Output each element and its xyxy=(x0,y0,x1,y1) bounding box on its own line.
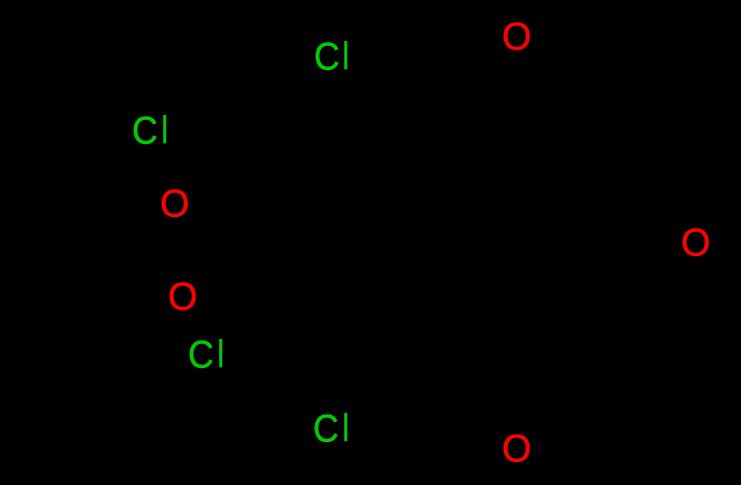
chlorine atom label Cl1 xyxy=(0,0,1,1)
chlorine atom label Cl4 xyxy=(0,0,1,1)
oxygen atom label O4 xyxy=(0,0,1,1)
oxygen atom label O2 xyxy=(0,0,1,1)
oxygen atom label O3 xyxy=(0,0,1,1)
oxygen atom label O1 xyxy=(0,0,1,1)
chlorine atom label Cl3 xyxy=(0,0,1,1)
oxygen atom label O5 xyxy=(0,0,1,1)
chlorine atom label Cl2 xyxy=(0,0,1,1)
